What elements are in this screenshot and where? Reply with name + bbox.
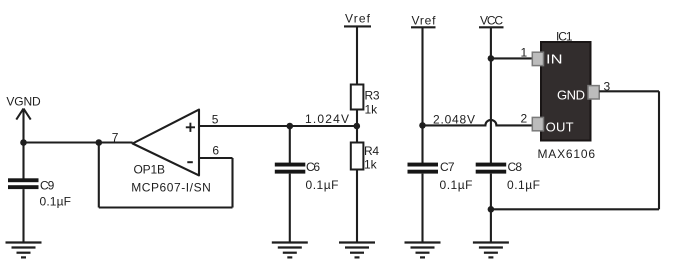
wire feedback: -input right stub [199,157,233,159]
svg-text:0.1µF: 0.1µF [40,194,72,208]
svg-text:2: 2 [521,112,528,126]
wire 2.048V to OUT pin with hop over VCC [423,120,533,125]
svg-text:1k: 1k [364,158,378,172]
svg-text:C8: C8 [508,160,523,174]
wire Vref column to C7 [421,27,423,163]
svg-text:OUT: OUT [546,120,574,135]
capacitor C7 [408,163,439,174]
wire R3 to node [356,110,358,143]
op-amp plus input symbol [186,123,195,132]
junction dot VGND [20,139,27,146]
capacitor C9 [8,178,39,189]
wire C6 branch down [289,126,291,163]
ground under C7 [405,243,441,258]
junction dot R3/R4 divider [354,123,361,130]
junction dot VCC/pin1 [488,55,495,62]
capacitor C8 [476,163,507,174]
wire feedback: left vertical to output node [98,143,100,208]
pin pad 1 [532,52,543,65]
resistor R3 [351,85,364,110]
svg-text:1.024V: 1.024V [305,112,349,126]
svg-text:0.1µF: 0.1µF [440,178,473,192]
wire feedback: bottom horizontal [99,206,233,208]
svg-text:R4: R4 [364,144,379,158]
ground under C8/VCC [473,243,509,258]
svg-text:VCC: VCC [480,13,503,27]
svg-text:0.1µF: 0.1µF [507,178,540,192]
svg-text:C6: C6 [306,160,320,174]
junction dot GND return [488,206,495,213]
op-amp minus input symbol [187,161,193,163]
resistor R4 [351,143,364,170]
wire C9 bottom to ground [22,189,24,242]
svg-text:1: 1 [521,46,528,60]
op-amp U1 OP1B triangle [133,110,199,176]
pin pad 3 [588,86,599,99]
wire C7 bottom to ground [421,174,423,242]
VGND arrow symbol [16,109,30,120]
wire VGND horizontal to op-amp output [24,141,133,143]
wire GND return bottom [491,208,659,210]
wire VCC to pin 1 [491,57,533,59]
svg-text:VGND: VGND [6,95,41,109]
wire Vref to R3 [356,26,358,84]
capacitor C6 [275,163,306,174]
wire feedback: right vertical [231,158,233,208]
wire C8 bottom to ground [490,174,492,242]
wire R4 to ground [356,170,358,243]
svg-text:Vref: Vref [412,13,437,27]
svg-text:GND: GND [557,87,585,102]
junction dot C6 branch [287,123,294,130]
svg-text:2.048V: 2.048V [433,112,475,126]
Vref bar [344,25,371,27]
wire VGND stem (arrow to C9 top) [22,109,24,179]
wire VCC column to C8 [490,27,492,163]
ground under R4 [339,243,375,258]
wire pin 3 to right [599,90,659,92]
IC U: MAX6106 body [541,42,591,141]
svg-text:OP1B: OP1B [134,163,166,177]
svg-text:C7: C7 [440,160,455,174]
svg-text:0.1µF: 0.1µF [306,178,339,192]
ground under C6 [272,243,308,258]
svg-text:1k: 1k [365,102,379,116]
svg-text:5: 5 [212,112,219,126]
junction dot op-amp output/feedback [96,139,103,146]
svg-text:MAX6106: MAX6106 [538,147,596,161]
svg-text:6: 6 [212,143,219,157]
svg-text:R3: R3 [365,88,380,102]
svg-text:C9: C9 [40,178,55,192]
wire C6 bottom to ground [289,174,291,242]
VCC bar [479,26,504,28]
ground under C9 [6,243,42,258]
wire op-amp +input to 1.024V node [199,125,357,127]
junction dot Vref/OUT [419,122,426,129]
svg-text:7: 7 [112,130,119,144]
svg-text:IN: IN [546,52,563,67]
Vref bar 2 [411,26,436,28]
wire right vertical [658,91,660,209]
pin pad 2 [532,117,543,130]
svg-text:MCP607-I/SN: MCP607-I/SN [131,180,211,194]
